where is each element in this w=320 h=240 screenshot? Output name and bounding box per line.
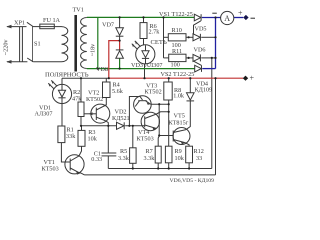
svg-text:СЕТЬ: СЕТЬ <box>151 39 167 46</box>
svg-text:FU 1A: FU 1A <box>43 17 61 24</box>
svg-text:VD7: VD7 <box>102 21 114 28</box>
svg-text:VD6: VD6 <box>194 47 206 54</box>
svg-text:S1: S1 <box>34 40 41 47</box>
svg-text:0.33: 0.33 <box>91 156 102 163</box>
svg-text:TV1: TV1 <box>73 7 84 14</box>
svg-text:А: А <box>224 14 230 23</box>
svg-text:~220v: ~220v <box>3 39 10 56</box>
svg-text:КТ815г: КТ815г <box>169 119 189 126</box>
svg-text:VS2 Т122-25: VS2 Т122-25 <box>161 71 195 78</box>
svg-text:33: 33 <box>196 155 202 162</box>
svg-text:1.0k: 1.0k <box>173 92 185 99</box>
svg-text:47k: 47k <box>72 96 82 103</box>
svg-text:ПОЛЯРНОСТЬ: ПОЛЯРНОСТЬ <box>45 71 89 78</box>
svg-text:5.6k: 5.6k <box>112 88 124 95</box>
svg-text:VD3 АЛ307: VD3 АЛ307 <box>131 62 163 69</box>
svg-text:КД521: КД521 <box>112 115 130 122</box>
svg-text:VD6,VD5 - КД109: VD6,VD5 - КД109 <box>170 178 215 184</box>
svg-text:VD8: VD8 <box>96 66 108 73</box>
svg-text:КТ503: КТ503 <box>137 136 154 143</box>
svg-text:КТ502: КТ502 <box>86 96 103 103</box>
svg-text:+: + <box>238 8 243 17</box>
svg-text:XP1: XP1 <box>14 19 25 26</box>
svg-text:КТ502: КТ502 <box>145 89 162 96</box>
svg-text:10k: 10k <box>88 136 98 143</box>
svg-text:3.3k: 3.3k <box>144 155 156 162</box>
svg-text:КТ503: КТ503 <box>42 166 59 173</box>
svg-text:VD5: VD5 <box>195 26 207 33</box>
svg-text:10k: 10k <box>175 155 185 162</box>
svg-text:2.7k: 2.7k <box>149 29 161 36</box>
svg-text:R11: R11 <box>172 48 182 55</box>
svg-text:3.3k: 3.3k <box>118 155 130 162</box>
svg-text:АЛ307: АЛ307 <box>35 111 53 118</box>
svg-text:100: 100 <box>171 62 180 69</box>
svg-text:VS1 Т122-25: VS1 Т122-25 <box>159 11 193 18</box>
svg-text:33k: 33k <box>66 133 76 140</box>
svg-text:R10: R10 <box>172 27 182 34</box>
svg-text:+: + <box>250 74 255 83</box>
svg-text:КД109: КД109 <box>195 86 213 93</box>
svg-text:~18v: ~18v <box>91 44 97 56</box>
